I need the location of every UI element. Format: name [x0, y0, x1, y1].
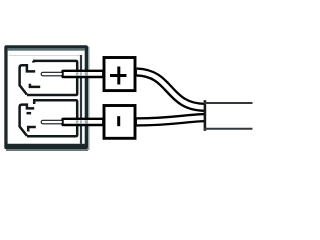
junction box -: [104, 106, 135, 139]
minus bar (vertical): [117, 116, 120, 126]
housing bevel: bottom outer gray band: [6, 149, 88, 151]
pin blade 2: [63, 119, 104, 125]
contact pill 2: [41, 120, 62, 124]
cavity 1 bracket stub: [32, 61, 35, 63]
housing inner wall right line: [80, 55, 82, 144]
connector housing outer shell: [4, 45, 88, 149]
cavity 1 (upper) outline: [20, 61, 78, 95]
cavity 2 upper spring finger: [27, 112, 32, 115]
housing inner wall faint top line: [9, 55, 82, 56]
wire + (outer black): [137, 72, 206, 107]
pin blade 1: [63, 71, 104, 77]
cavity 1 lower spring finger: [30, 84, 40, 87]
cable sheath top edge: [204, 102, 253, 104]
wire + (white core): [137, 72, 205, 107]
wall ticks through blade 1: [76, 72, 79, 76]
cable sheath interior mask: [206, 98, 256, 133]
plus sign horizontal bar: [110, 74, 127, 77]
wall ticks through blade 2: [76, 120, 79, 124]
wire - (outer black): [137, 118, 206, 122]
cavity 1 contact bracket: [20, 65, 36, 94]
plus sign vertical bar: [117, 67, 120, 85]
cavity 2 bracket stub: [33, 100, 36, 104]
wire - (white core): [137, 118, 205, 122]
junction box +: [104, 58, 135, 91]
cavity 2 contact bracket: [20, 105, 35, 136]
cavity 2 (lower) outline: [20, 100, 78, 136]
cable sheath left edge: [204, 100, 207, 131]
housing bevel: top inner gray band: [8, 48, 85, 50]
contact pill 1: [41, 72, 62, 76]
cavity 2 lower spring finger: [28, 127, 36, 132]
housing bevel: right outer gray line: [88, 47, 90, 151]
cable sheath bottom edge: [204, 128, 253, 130]
